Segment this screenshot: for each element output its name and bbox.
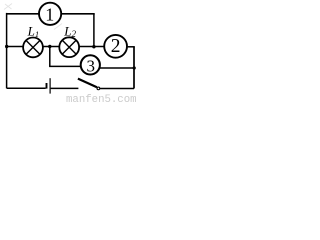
switch S1 lever (open) (78, 79, 97, 88)
svg-text:1: 1 (45, 4, 54, 24)
battery BT1 long thin plate (positive) (49, 78, 51, 93)
meter U3 (circle 3) (81, 55, 100, 74)
wire: meter 3 to right vertical (100, 67, 135, 69)
junction: branch tap between L1 and L2 (48, 45, 51, 48)
junction: drop vertical / middle row (92, 45, 95, 48)
lamp L2 (circle with X) (59, 37, 79, 57)
svg-text:3: 3 (86, 56, 95, 75)
switch S1 contact circle (97, 87, 100, 90)
wire: battery to switch (51, 87, 79, 89)
faint watermark fragment top-left (4, 4, 12, 10)
wire: between lamp L1 and lamp L2 (43, 46, 59, 48)
wire: meter 2 to right vertical corner (128, 46, 135, 48)
faint watermark fragment near L2 (54, 24, 62, 30)
battery BT1 short thick plate (negative) (46, 83, 48, 89)
junction: meter-3 branch / right vertical (133, 66, 136, 69)
wire: branch horizontal to meter 3 (49, 65, 81, 67)
junction: left vertical / middle row (5, 45, 8, 48)
wire: drop vertical from top wire to middle row (93, 14, 95, 47)
wire: left vertical (top-left to bottom-left corner) (6, 13, 8, 88)
wire: meter 1 to top-right drop corner (top wire right part) (61, 13, 94, 15)
lamp L1 (circle with X) (23, 38, 43, 58)
meter U2 (circle 2) (104, 35, 127, 58)
svg-text:manfen5.com: manfen5.com (66, 94, 137, 104)
wire: right vertical (133, 47, 135, 89)
meter U1 (circle 1) (39, 3, 61, 25)
wire: branch vertical down from tap junction (49, 47, 51, 67)
wire: top-left corner to meter 1 (top wire left part) (7, 13, 39, 15)
wire: bottom from left corner to battery (7, 87, 46, 89)
wire: middle row from left vertical to lamp L1 (7, 46, 24, 48)
wire: lamp L2 to meter 2 (79, 46, 104, 48)
svg-text:2: 2 (111, 36, 121, 57)
wire: switch to bottom-right corner (100, 88, 134, 90)
